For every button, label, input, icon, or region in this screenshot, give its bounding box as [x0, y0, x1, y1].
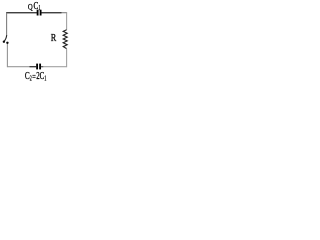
wire bottom-left segment — [7, 66, 36, 68]
wire bottom-right dark part near C2 — [41, 66, 43, 68]
wire left upper — [6, 13, 8, 36]
wire right lower — [66, 49, 68, 68]
svg-text:1: 1 — [44, 74, 46, 82]
capacitor C1 left plate — [37, 10, 39, 16]
switch blade — [4, 35, 7, 41]
switch terminal dot right — [6, 42, 8, 44]
wire right upper — [66, 13, 68, 30]
switch terminal dot left — [3, 41, 5, 43]
wire top-right corner piece — [62, 12, 68, 14]
svg-text:Q: Q — [28, 3, 33, 12]
svg-text:2C: 2C — [36, 71, 44, 82]
wire left lower — [6, 44, 8, 68]
svg-text:R: R — [51, 32, 57, 44]
capacitor C2 left plate — [36, 64, 38, 70]
wire bottom-right segment — [41, 66, 67, 68]
capacitor C2 right plate — [39, 64, 41, 70]
svg-text:2: 2 — [30, 74, 32, 82]
wire top-left segment — [6, 12, 37, 14]
label equals — [32, 74, 35, 77]
resistor R — [63, 30, 67, 49]
wire top-right segment — [41, 12, 61, 14]
capacitor C1 right plate — [40, 10, 42, 16]
svg-text:1: 1 — [39, 4, 41, 12]
wire bottom-left dark part near C2 — [30, 66, 37, 68]
